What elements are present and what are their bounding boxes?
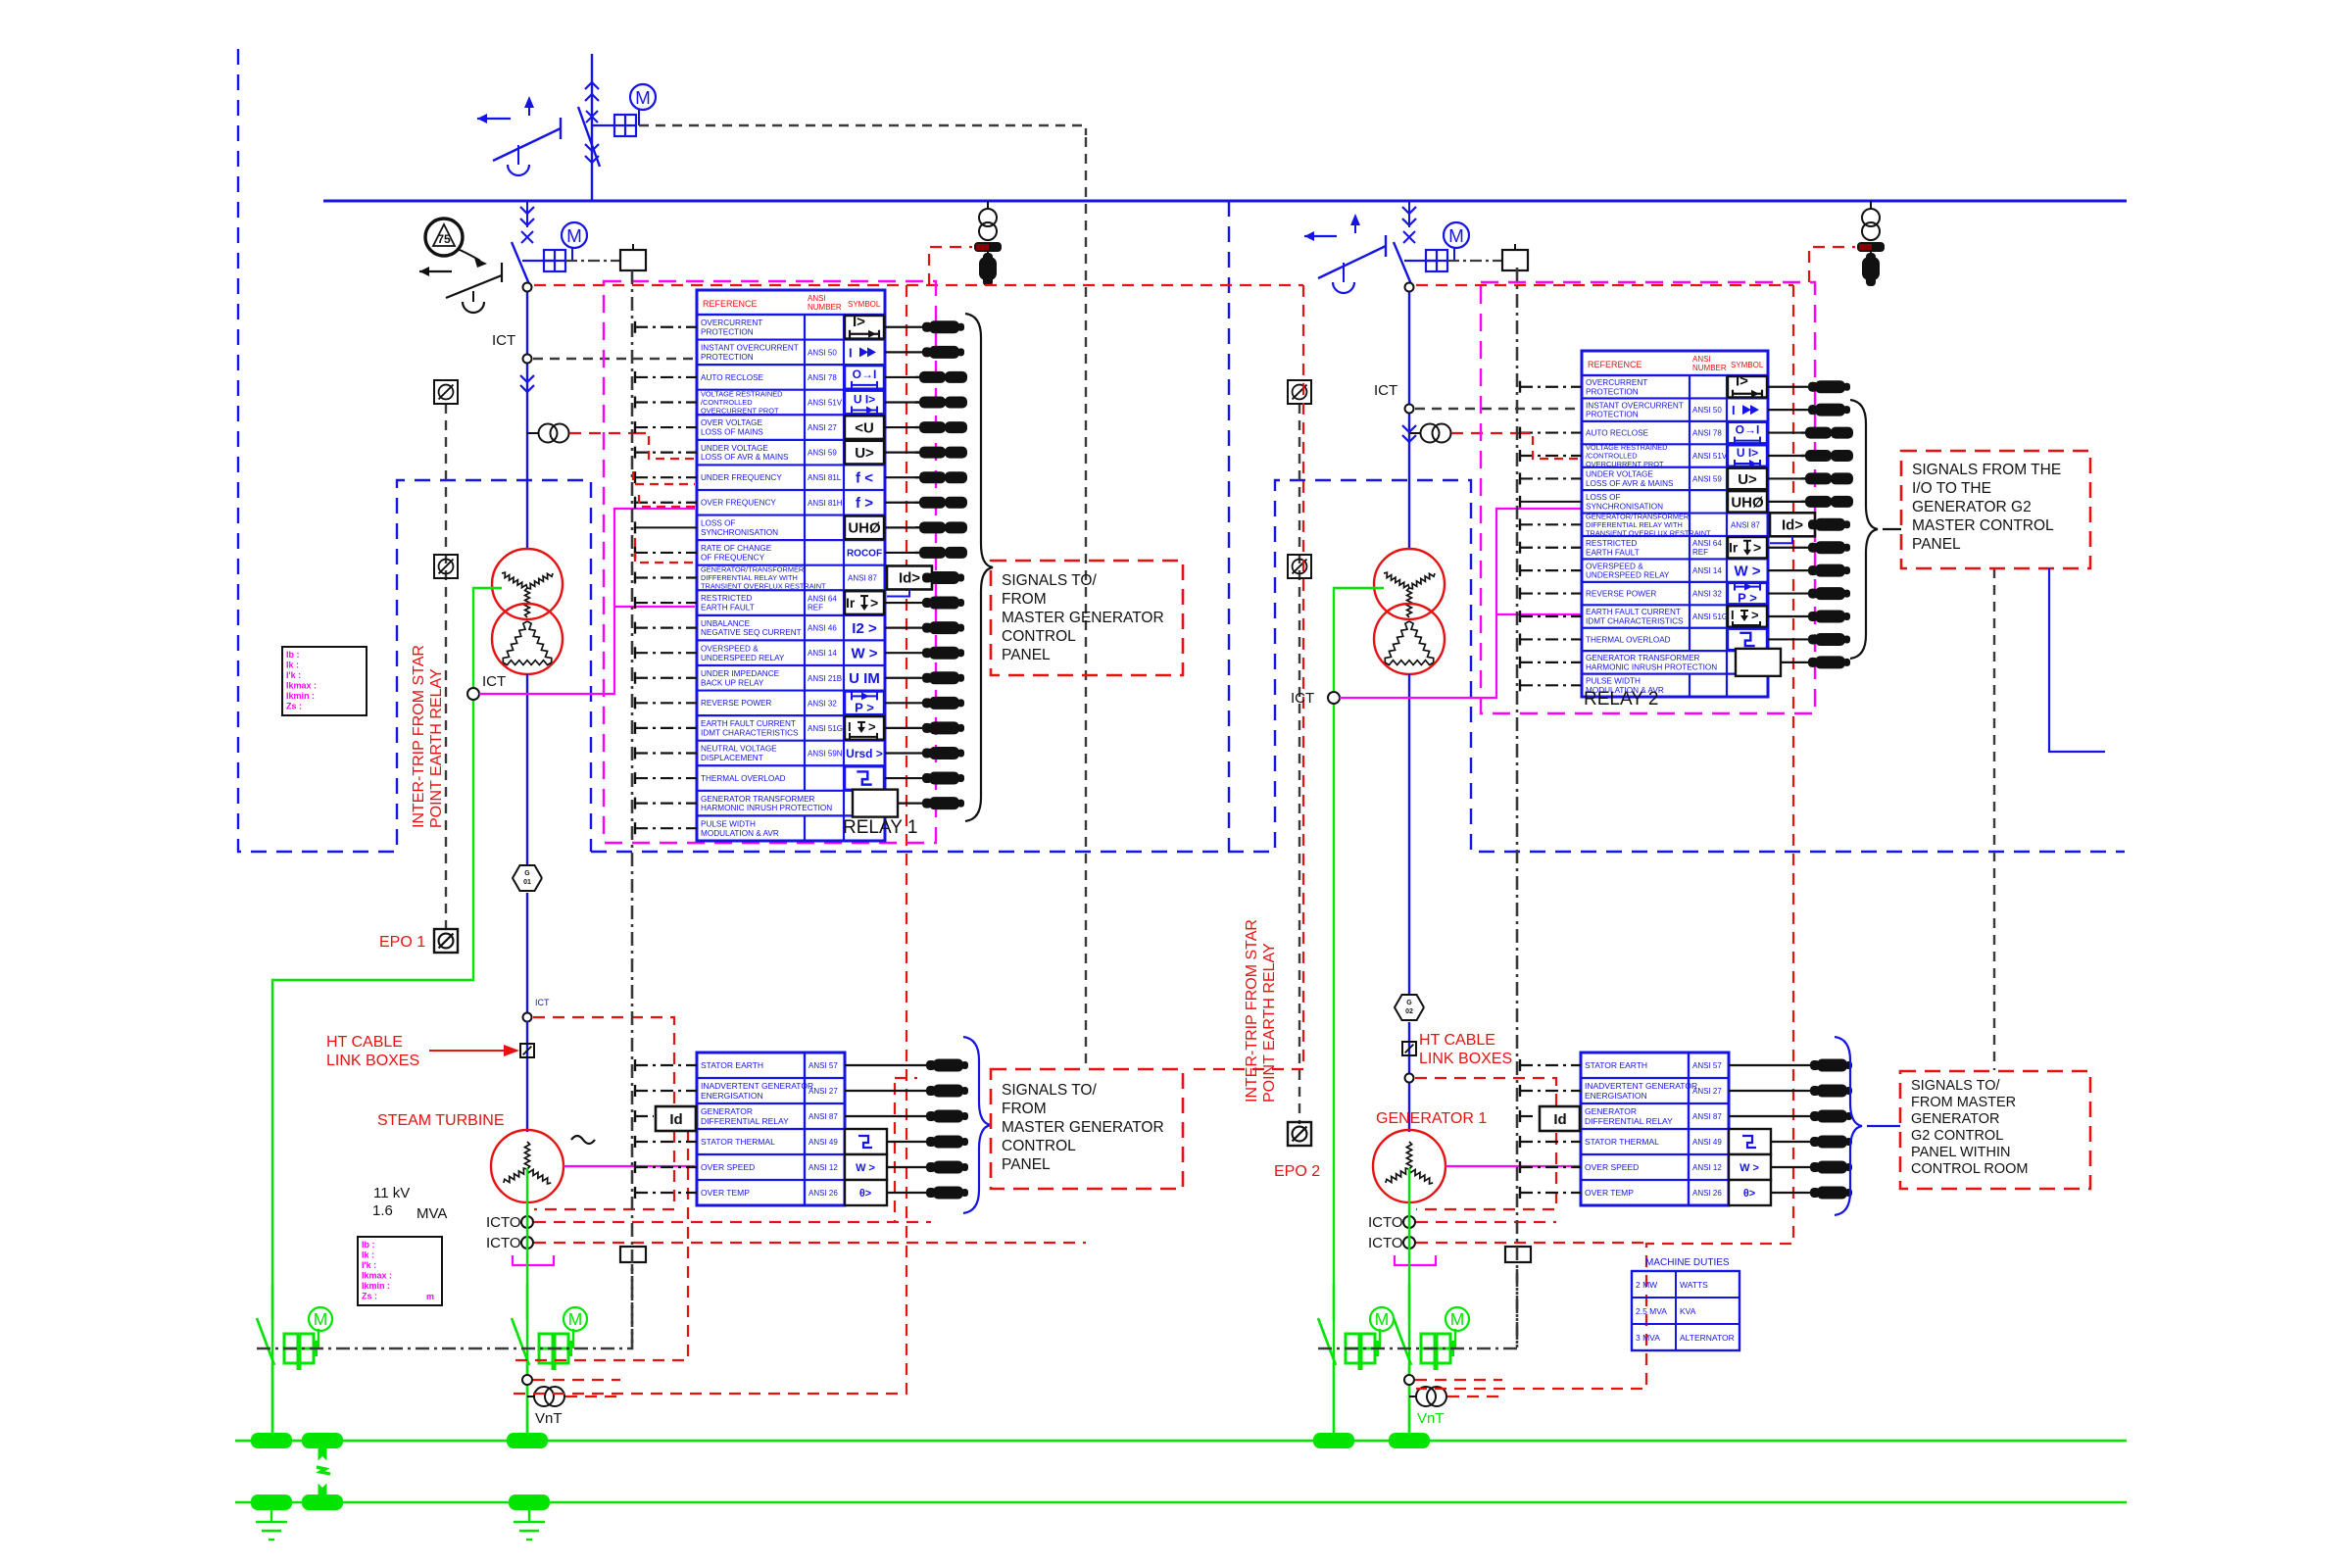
svg-text:Ib :: Ib : <box>362 1240 375 1249</box>
generator relay table G2 row 4: STATOR THERMAL <box>1585 1129 1771 1154</box>
svg-text:ANSI: ANSI <box>1692 355 1711 364</box>
generator G2 machine circle <box>1373 1130 1445 1202</box>
svg-text:M: M <box>568 1309 583 1329</box>
svg-text:ANSI 59: ANSI 59 <box>1692 474 1722 483</box>
svg-text:ANSI 81L: ANSI 81L <box>808 473 842 482</box>
wire: red dashed hook rows 7-8 left <box>633 471 695 507</box>
svg-text:CONTROL: CONTROL <box>1002 1138 1076 1154</box>
wire: black dashed from ICT tap 1 to relay table <box>533 358 695 360</box>
interlock relay box of Q2 generator feeder 2 <box>1447 244 1528 270</box>
svg-text:AUTO RECLOSE: AUTO RECLOSE <box>1586 428 1649 437</box>
connector plug G2 lower row 1 <box>1729 1059 1852 1072</box>
earthing breaker E2 <box>512 1284 529 1441</box>
svg-text:POINT EARTH RELAY: POINT EARTH RELAY <box>428 668 445 828</box>
wire: red dashed inner vertical left <box>510 285 906 1394</box>
wire: red dashed hook rows 4-5 right <box>1521 433 1582 459</box>
label RELAY 1 <box>843 817 917 838</box>
wire: dash-dot trip trunk left <box>631 270 634 1348</box>
svg-text:ANSI 27: ANSI 27 <box>808 1087 838 1096</box>
svg-text:POINT EARTH RELAY: POINT EARTH RELAY <box>1261 943 1278 1102</box>
generator relay table G1 row 6: OVER TEMP <box>701 1180 887 1205</box>
svg-text:OVERCURRENT: OVERCURRENT <box>1586 378 1647 387</box>
wire: feeder 2 HV column upper <box>1408 284 1410 549</box>
wire: dash-dot stub RELAY1 row 5 <box>635 421 697 433</box>
svg-text:INTER-TRIP FROM STAR: INTER-TRIP FROM STAR <box>1244 919 1260 1102</box>
connector plug G1 lower row 1 <box>845 1059 968 1072</box>
machine data box G1 <box>358 1237 442 1305</box>
relay table RELAY1 row 6: UNDER VOLTAGE <box>701 440 884 465</box>
ICT label of feeder 2 <box>1374 382 1397 399</box>
svg-text:Ursd >: Ursd > <box>846 747 883 760</box>
svg-text:I/O TO THE: I/O TO THE <box>1912 480 1991 497</box>
wire: red dashed tail to left earthing plug <box>929 247 972 285</box>
svg-text:ANSI 32: ANSI 32 <box>1692 590 1722 599</box>
svg-text:CONTROL ROOM: CONTROL ROOM <box>1911 1161 2029 1177</box>
connector plug RELAY1 row 17 <box>885 721 964 734</box>
svg-text:THERMAL OVERLOAD: THERMAL OVERLOAD <box>701 774 786 783</box>
svg-text:MODULATION & AVR: MODULATION & AVR <box>701 829 779 838</box>
svg-text:θ>: θ> <box>859 1188 871 1200</box>
wire: dash-dot stub RELAY1 row 15 <box>635 672 697 684</box>
svg-text:ICT: ICT <box>535 998 550 1007</box>
Id differential box G2 <box>1540 1106 1580 1131</box>
svg-text:I2 >: I2 > <box>852 620 877 637</box>
wire: dash-dot stub RELAY1 row 10 <box>635 547 697 559</box>
lockout device 75 (left) <box>425 219 487 268</box>
relay table RELAY2 row 11: EARTH FAULT CURRENT <box>1586 605 1767 629</box>
svg-text:EARTH FAULT CURRENT: EARTH FAULT CURRENT <box>1586 608 1681 616</box>
relay table RELAY1 row 19: THERMAL OVERLOAD <box>701 765 884 791</box>
label INTER-TRIP FROM STAR POINT EARTH RELAY right <box>1244 919 1278 1102</box>
svg-text:SYNCHRONISATION: SYNCHRONISATION <box>701 528 778 537</box>
svg-text:LOSS OF: LOSS OF <box>1586 493 1621 502</box>
svg-text:HT CABLE: HT CABLE <box>326 1034 403 1051</box>
svg-text:HARMONIC INRUSH PROTECTION: HARMONIC INRUSH PROTECTION <box>1586 662 1717 671</box>
busbar VT right <box>1862 201 1880 240</box>
relay table RELAY1 row 3: AUTO RECLOSE <box>701 365 884 390</box>
svg-text:ANSI 27: ANSI 27 <box>1692 1087 1722 1096</box>
connector plug RELAY1 row 5 <box>885 421 967 433</box>
svg-text:01: 01 <box>523 879 531 886</box>
svg-text:Id: Id <box>1553 1111 1566 1128</box>
connector plug RELAY1 row 2 <box>885 346 964 359</box>
relay table RELAY1 row 10: RATE OF CHANGE <box>701 540 882 565</box>
wire: dash-dot stub RELAY2 row 8 <box>1520 542 1582 554</box>
svg-text:ANSI 87: ANSI 87 <box>1731 520 1760 529</box>
ICTO tap 1 <box>1368 1214 1415 1231</box>
svg-text:MASTER GENERATOR: MASTER GENERATOR <box>1002 1119 1164 1136</box>
busbar VT left <box>979 201 997 240</box>
generator transformer T1 star winding <box>492 549 563 619</box>
wire: grey dashed I/O riser right <box>1993 568 1995 1070</box>
wire: red dashed lower-right box a <box>1415 1078 1556 1209</box>
generator relay table G1 row 1: STATOR EARTH <box>701 1060 838 1070</box>
relay table RELAY1 row 11: GENERATOR/TRANSFORMER <box>701 564 932 596</box>
svg-text:UNDER FREQUENCY: UNDER FREQUENCY <box>701 473 782 482</box>
svg-text:U>: U> <box>1738 471 1757 488</box>
label GENERATOR 1 <box>1376 1110 1487 1127</box>
wire: feeder 1 HV column upper <box>526 284 528 549</box>
EPO 1 pushbutton <box>434 929 458 953</box>
brace signals G1 lower <box>963 1037 991 1213</box>
wire: dash-dot stub RELAY1 row 4 <box>635 396 697 408</box>
svg-text:LOSS OF AVR & MAINS: LOSS OF AVR & MAINS <box>1586 479 1674 488</box>
svg-text:ANSI 81H: ANSI 81H <box>808 499 843 508</box>
svg-text:INSTANT OVERCURRENT: INSTANT OVERCURRENT <box>1586 401 1684 410</box>
relay table RELAY2 row 6: LOSS OF <box>1586 490 1767 513</box>
wire: magenta ICT lead left <box>479 509 695 694</box>
svg-text:2.5 MVA: 2.5 MVA <box>1636 1306 1667 1316</box>
relay table RELAY1 row 15: UNDER IMPEDANCE <box>701 665 880 691</box>
svg-text:PULSE WIDTH: PULSE WIDTH <box>701 819 756 828</box>
svg-text:REVERSE POWER: REVERSE POWER <box>701 699 771 708</box>
connector plug RELAY2 row 9 <box>1768 564 1850 577</box>
svg-text:SIGNALS TO/: SIGNALS TO/ <box>1911 1078 2000 1094</box>
Id differential box G1 <box>656 1106 696 1131</box>
connector plug RELAY2 row 2 <box>1768 404 1850 416</box>
svg-text:ANSI 12: ANSI 12 <box>1692 1163 1722 1172</box>
wire: dash-dot stub RELAY1 row 9 <box>635 521 697 533</box>
relay table RELAY1 row 5: OVER VOLTAGE <box>701 415 884 440</box>
svg-text:STEAM TURBINE: STEAM TURBINE <box>377 1112 505 1129</box>
svg-text:REVERSE POWER: REVERSE POWER <box>1586 589 1656 598</box>
wire: dash-dot stub RELAY1 row 11 <box>635 571 697 583</box>
svg-text:W >: W > <box>1739 1162 1759 1174</box>
relay table RELAY2 row 3: AUTO RECLOSE <box>1586 421 1767 445</box>
wire: dash-dot stub RELAY1 row 6 <box>635 447 697 459</box>
svg-text:REF: REF <box>1692 548 1708 557</box>
label EPO 1 <box>379 934 425 951</box>
svg-text:I>: I> <box>1736 373 1748 390</box>
wire: red dashed from VnT node left <box>533 1380 620 1396</box>
svg-text:OF FREQUENCY: OF FREQUENCY <box>701 553 765 562</box>
wire: dash-dot stub G1 lower row 5 <box>635 1161 697 1173</box>
connector plug RELAY1 row 6 <box>885 447 967 459</box>
svg-text:GENERATOR: GENERATOR <box>701 1106 753 1116</box>
wire: dash-dot stub RELAY1 row 13 <box>635 622 697 634</box>
magenta bracket under ICTO <box>1395 1255 1436 1265</box>
label EPO 2 <box>1274 1163 1320 1180</box>
svg-text:Id>: Id> <box>899 569 920 586</box>
wire: green earth run from T1 star point <box>272 588 502 1441</box>
svg-text:REF: REF <box>808 604 823 612</box>
label INTER-TRIP FROM STAR POINT EARTH RELAY left <box>411 645 445 828</box>
svg-text:PANEL: PANEL <box>1002 647 1051 663</box>
generator relay table G1 row 2: INADVERTENT GENERATOR <box>701 1081 838 1101</box>
relay table RELAY1 row 16: REVERSE POWER <box>701 691 884 716</box>
wire: dash-dot stub RELAY1 row 18 <box>635 747 697 759</box>
wire: dash-dot stub RELAY2 row 4 <box>1520 450 1582 462</box>
ICT label of feeder 1 <box>492 332 515 349</box>
wire: dash-dot stub RELAY1 row 3 <box>635 371 697 383</box>
generator transformer T1 delta winding <box>492 604 563 674</box>
machine duties table <box>1632 1257 1739 1350</box>
svg-text:ANSI 26: ANSI 26 <box>1692 1189 1722 1198</box>
wire: blue dashed intertrip route left <box>238 49 591 852</box>
svg-text:LINK BOXES: LINK BOXES <box>1419 1051 1512 1067</box>
svg-text:THERMAL OVERLOAD: THERMAL OVERLOAD <box>1586 635 1671 644</box>
svg-text:f <: f < <box>856 470 873 487</box>
svg-text:OVER VOLTAGE: OVER VOLTAGE <box>701 418 762 427</box>
connector plug RELAY2 row 8 <box>1768 541 1850 554</box>
relay table RELAY2 row 2: INSTANT OVERCURRENT <box>1586 398 1759 420</box>
node: VnT tap left <box>522 1375 532 1385</box>
connector plug G1 lower row 6 <box>887 1187 968 1200</box>
ICTO tap 2 <box>486 1235 533 1251</box>
svg-text:GENERATOR 1: GENERATOR 1 <box>1376 1110 1487 1127</box>
node: ICT tap of feeder 1 <box>523 355 532 364</box>
svg-text:I: I <box>1732 403 1736 417</box>
label VnT left <box>535 1410 563 1427</box>
svg-text:RESTRICTED: RESTRICTED <box>701 594 752 603</box>
svg-text:PROTECTION: PROTECTION <box>1586 411 1639 419</box>
wire: grey dashed EPO chain left <box>445 404 447 929</box>
svg-text:ENERGISATION: ENERGISATION <box>701 1091 763 1101</box>
svg-text:ANSI 49: ANSI 49 <box>1692 1138 1722 1147</box>
svg-text:NEGATIVE SEQ CURRENT: NEGATIVE SEQ CURRENT <box>701 628 802 637</box>
EPO 2 pushbutton <box>1288 1122 1311 1146</box>
svg-text:IDMT CHARACTERISTICS: IDMT CHARACTERISTICS <box>701 728 799 737</box>
generator relay table G2 row 2: INADVERTENT GENERATOR <box>1585 1081 1722 1101</box>
svg-text:DISPLACEMENT: DISPLACEMENT <box>701 754 763 762</box>
svg-text:GENERATOR: GENERATOR <box>1585 1106 1637 1116</box>
svg-text:G: G <box>1406 1000 1412 1006</box>
wire: dash-dot stub G1 lower row 4 <box>635 1136 697 1148</box>
link box square EPO chain right upper <box>1288 380 1311 404</box>
earthing breaker E4 <box>1394 1284 1411 1441</box>
wire: red dashed lower-left box c <box>895 1078 917 1222</box>
svg-text:INADVERTENT GENERATOR: INADVERTENT GENERATOR <box>701 1081 813 1091</box>
connector plug RELAY1 row 10 <box>885 547 967 559</box>
svg-text:LOSS OF: LOSS OF <box>701 519 736 528</box>
wire: red dashed right edge of left trip box <box>1188 285 1303 1069</box>
svg-text:TRANSIENT OVERFLUX RESTRAINT: TRANSIENT OVERFLUX RESTRAINT <box>701 582 826 591</box>
circuit breaker Q1 generator feeder 1 <box>512 201 534 284</box>
svg-text:>: > <box>868 719 876 734</box>
svg-text:Ir: Ir <box>846 595 856 611</box>
relay table RELAY1 row 14: OVERSPEED & <box>701 640 878 665</box>
connector plug G1 lower row 3 <box>845 1110 968 1123</box>
connector plug RELAY2 row 13 <box>1781 656 1850 668</box>
svg-text:HARMONIC INRUSH PROTECTION: HARMONIC INRUSH PROTECTION <box>701 804 832 812</box>
svg-text:OVERCURRENT PROT: OVERCURRENT PROT <box>1586 460 1664 468</box>
svg-text:ANSI 50: ANSI 50 <box>808 348 837 357</box>
svg-text:OVER SPEED: OVER SPEED <box>1585 1162 1639 1172</box>
svg-text:PROTECTION: PROTECTION <box>1586 387 1639 396</box>
svg-text:KVA: KVA <box>1680 1306 1696 1316</box>
link box square EPO chain left upper <box>434 380 458 404</box>
svg-text:UNDER VOLTAGE: UNDER VOLTAGE <box>1586 470 1653 479</box>
earth symbol bus2 left b <box>514 1510 545 1540</box>
svg-text:PROTECTION: PROTECTION <box>701 327 754 336</box>
removable link between earth buses <box>307 1441 338 1502</box>
wire: dash-dot stub RELAY1 row 12 <box>635 597 697 609</box>
signal box SIGNALS TO/FROM MASTER GENERATOR CONTROL PANEL upper left <box>991 561 1183 675</box>
connector plug RELAY1 row 3 <box>885 371 967 383</box>
signal box SIGNALS TO/FROM lower left <box>991 1069 1183 1189</box>
relay table RELAY1 row 9: LOSS OF <box>701 515 884 541</box>
svg-text:ANSI 64: ANSI 64 <box>1692 539 1722 548</box>
connector plug RELAY1 row 14 <box>885 647 964 660</box>
wire: LV column of transformer T2 to hexagon <box>1408 674 1410 996</box>
wire: dash-dot stub G1 lower row 2 <box>635 1085 697 1097</box>
svg-text:ANSI 59: ANSI 59 <box>808 449 837 458</box>
wire: dash-dot stub G1 lower row 3 <box>635 1110 654 1122</box>
wire: red dashed from feeder CT 2 <box>1451 432 1519 434</box>
wire: dash-dot stub RELAY1 row 20 <box>635 798 697 809</box>
interlock relay box lower right <box>1505 1247 1531 1262</box>
connector plug RELAY1 row 1 <box>885 320 964 333</box>
svg-text:GENERATOR TRANSFORMER: GENERATOR TRANSFORMER <box>701 795 815 804</box>
svg-text:ANSI 57: ANSI 57 <box>1692 1061 1722 1070</box>
wire: red dashed from VnT node right <box>1415 1380 1502 1396</box>
svg-text:ICT: ICT <box>492 332 515 349</box>
wire: red dashed from feeder CT 1 <box>569 432 637 434</box>
svg-text:STATOR EARTH: STATOR EARTH <box>701 1060 763 1070</box>
generator relay table G1 frame <box>697 1053 845 1205</box>
svg-text:ANSI 87: ANSI 87 <box>808 1112 838 1121</box>
svg-text:PANEL: PANEL <box>1002 1156 1051 1173</box>
circuit breaker Q2 generator feeder 2 <box>1394 201 1416 284</box>
label 11kV 1.6MVA <box>372 1185 447 1222</box>
earthing busbar 2 <box>235 1501 2127 1504</box>
svg-text:GENERATOR G2: GENERATOR G2 <box>1912 499 2032 515</box>
label RELAY 2 <box>1584 689 1658 710</box>
HT cable link box left <box>520 1044 534 1057</box>
svg-text:02: 02 <box>1405 1008 1413 1015</box>
svg-text:EARTH FAULT: EARTH FAULT <box>1586 548 1640 557</box>
svg-text:M: M <box>1448 225 1464 246</box>
svg-text:M: M <box>1450 1309 1465 1329</box>
svg-text:ANSI 49: ANSI 49 <box>808 1138 838 1147</box>
svg-text:Ikmax :: Ikmax : <box>286 681 317 691</box>
svg-text:EPO 2: EPO 2 <box>1274 1163 1320 1180</box>
wire: dash-dot interlock run bottom left <box>257 1264 632 1348</box>
tilde AC mark near G1 <box>571 1136 595 1144</box>
relay table RELAY2 row 7: GENERATOR/TRANSFORMER <box>1586 512 1815 543</box>
relay table RELAY2 row 12: THERMAL OVERLOAD <box>1586 628 1767 651</box>
svg-text:ANSI 21B: ANSI 21B <box>808 674 842 683</box>
ICTO tap 2 <box>1368 1235 1415 1251</box>
svg-text:SYNCHRONISATION: SYNCHRONISATION <box>1586 502 1663 511</box>
earth switch of incomer Q0 <box>477 96 561 175</box>
svg-text:ENERGISATION: ENERGISATION <box>1585 1091 1647 1101</box>
svg-text:OVER SPEED: OVER SPEED <box>701 1162 755 1172</box>
relay table RELAY2 row 5: UNDER VOLTAGE <box>1586 467 1767 490</box>
wire: dash-dot stub RELAY2 row 10 <box>1520 588 1582 600</box>
motor operator of earthing breaker E1 <box>284 1307 332 1370</box>
svg-text:LOSS OF MAINS: LOSS OF MAINS <box>701 428 763 437</box>
svg-text:ANSI 46: ANSI 46 <box>808 624 837 633</box>
connector plug RELAY2 row 10 <box>1768 587 1850 600</box>
relay table RELAY1 row 7: UNDER FREQUENCY <box>701 465 873 490</box>
connector plug G1 lower row 4 <box>887 1136 968 1149</box>
svg-text:MASTER GENERATOR: MASTER GENERATOR <box>1002 610 1164 626</box>
svg-text:ICT: ICT <box>1291 690 1314 707</box>
svg-text:MVA: MVA <box>416 1205 447 1222</box>
small ICT label lower left <box>535 998 550 1007</box>
svg-text:ANSI 14: ANSI 14 <box>1692 566 1722 575</box>
wire: dash-dot stub RELAY1 row 1 <box>635 321 697 333</box>
generator transformer T2 star winding <box>1374 549 1445 619</box>
label VnT right <box>1417 1410 1445 1427</box>
svg-text:RATE OF CHANGE: RATE OF CHANGE <box>701 544 772 553</box>
circuit breaker Q0 incomer <box>578 82 600 169</box>
svg-text:I>: I> <box>853 314 865 330</box>
wire: magenta generator lead right <box>1445 1165 1582 1167</box>
svg-text:UHØ: UHØ <box>1731 494 1764 511</box>
relay table RELAY2 row 10: REVERSE POWER <box>1586 582 1767 606</box>
svg-text:LINK BOXES: LINK BOXES <box>326 1053 419 1069</box>
svg-text:SIGNALS TO/: SIGNALS TO/ <box>1002 572 1097 589</box>
interlock relay box of Q1 generator feeder 1 <box>565 244 646 270</box>
machine data box T1 <box>282 647 367 715</box>
connector plug RELAY1 row 9 <box>885 521 967 533</box>
generator relay table G1 row 3: GENERATOR <box>701 1106 838 1126</box>
svg-text:Ikmax :: Ikmax : <box>362 1271 392 1281</box>
connector plug RELAY1 row 15 <box>885 671 964 684</box>
relay table RELAY1 frame <box>697 290 885 841</box>
svg-text:ANSI 78: ANSI 78 <box>808 373 837 382</box>
svg-text:EARTH FAULT: EARTH FAULT <box>701 604 755 612</box>
svg-text:EPO 1: EPO 1 <box>379 934 425 951</box>
generator G1 machine circle <box>491 1130 563 1202</box>
svg-text:ANSI 87: ANSI 87 <box>1692 1112 1722 1121</box>
magenta dashed box around RELAY 2 <box>1481 282 1815 713</box>
VnT transformer left <box>527 1387 564 1406</box>
svg-text:CONTROL: CONTROL <box>1002 628 1076 645</box>
relay table RELAY2 frame <box>1582 351 1768 697</box>
svg-text:MACHINE DUTIES: MACHINE DUTIES <box>1645 1257 1730 1268</box>
earthing busbar 1 <box>235 1440 2127 1443</box>
wire: dash-dot stub G2 lower row 1 <box>1520 1059 1581 1071</box>
wire: dash-dot stub RELAY1 row 17 <box>635 722 697 734</box>
svg-text:Id: Id <box>669 1111 682 1128</box>
svg-text:ICT: ICT <box>482 673 506 690</box>
connector plug G2 lower row 4 <box>1771 1136 1852 1149</box>
svg-text:Ikmin :: Ikmin : <box>362 1281 390 1291</box>
wire: magenta ICT lead right <box>1340 509 1582 698</box>
feeder CT 2 <box>1409 424 1451 443</box>
motor operator M of Q2 generator feeder 2 <box>1404 222 1469 271</box>
link box square EPO chain right mid <box>1288 555 1311 578</box>
svg-text:ANSI 87: ANSI 87 <box>848 573 877 582</box>
wire: dash-dot stub RELAY2 row 13 <box>1520 657 1582 668</box>
svg-text:>: > <box>870 595 878 611</box>
svg-text:f >: f > <box>856 495 873 512</box>
relay table RELAY2 row 14: PULSE WIDTH <box>1586 674 1727 697</box>
wire: red dashed trip bus top left <box>534 284 1303 286</box>
generator relay table G1 row 5: OVER SPEED <box>701 1154 887 1180</box>
wire: magenta generator lead left <box>563 1165 695 1167</box>
svg-text:ICTO: ICTO <box>486 1235 521 1251</box>
connector plug RELAY2 row 7 <box>1808 518 1850 531</box>
wire: red dashed right edge of right trip box <box>1416 285 1793 1389</box>
svg-text:DIFFERENTIAL RELAY: DIFFERENTIAL RELAY <box>1585 1116 1673 1126</box>
svg-text:Ikmin :: Ikmin : <box>286 691 315 701</box>
svg-text:OVER TEMP: OVER TEMP <box>1585 1188 1634 1198</box>
svg-text:OVERSPEED &: OVERSPEED & <box>1586 562 1643 570</box>
wire: dash-dot stub RELAY2 row 14 <box>1520 679 1582 691</box>
signal box SIGNALS TO/FROM MASTER GENERATOR G2 lower right <box>1900 1071 2090 1189</box>
svg-text:INADVERTENT GENERATOR: INADVERTENT GENERATOR <box>1585 1081 1697 1091</box>
connector plug RELAY2 row 11 <box>1768 611 1850 623</box>
node: VnT tap right <box>1404 1375 1414 1385</box>
svg-text:REFERENCE: REFERENCE <box>1588 360 1642 369</box>
svg-text:UNDER VOLTAGE: UNDER VOLTAGE <box>701 444 768 453</box>
wire: dash-dot stub RELAY1 row 16 <box>635 697 697 709</box>
earth switch of feeder 2 (blue) <box>1304 214 1386 293</box>
